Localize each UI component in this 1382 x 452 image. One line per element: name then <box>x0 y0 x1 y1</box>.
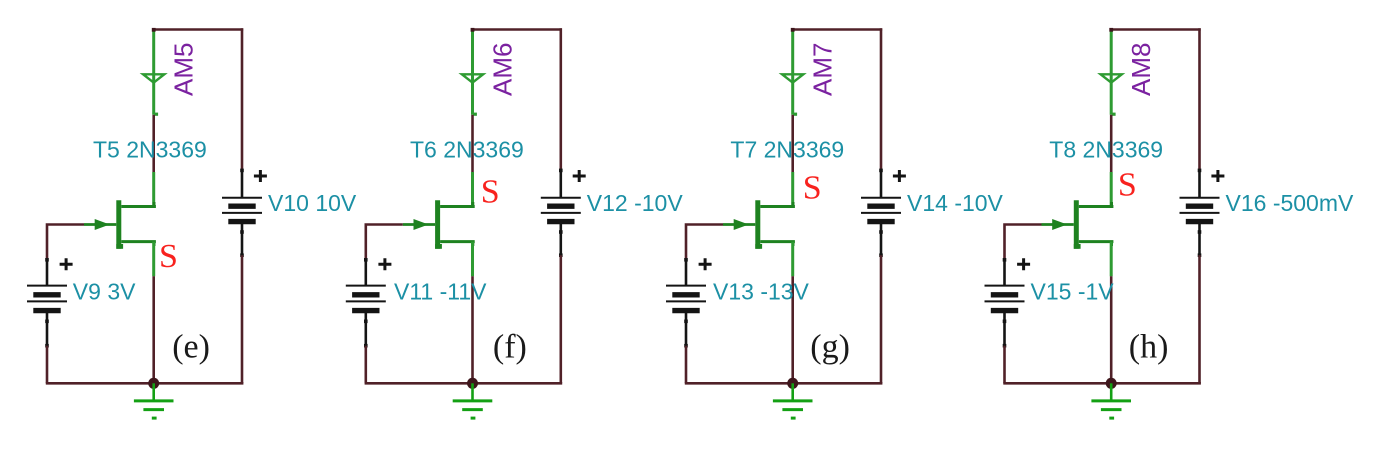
wire drain stub <box>152 172 155 207</box>
ammeter AM5 bottom pin tick <box>154 113 158 116</box>
svg-text:AM7: AM7 <box>808 43 838 96</box>
svg-text:V13 -13V: V13 -13V <box>713 279 810 305</box>
ammeter AM7 (arrow symbol) <box>782 74 803 82</box>
ground <box>1091 383 1131 418</box>
battery V15 <box>985 258 1031 348</box>
wire ammeter top lead <box>791 31 794 115</box>
wire source to bottom rail <box>471 276 474 383</box>
wire bottom rail (ground net) <box>46 382 244 385</box>
wire gate to left battery <box>47 225 84 260</box>
wire source lead down <box>152 242 155 277</box>
wire right rail upper <box>1198 28 1201 170</box>
wire ammeter top lead <box>471 31 474 115</box>
ammeter AM6 (arrow symbol) <box>462 74 483 82</box>
wire drain stub <box>1110 172 1113 207</box>
ground <box>453 383 493 418</box>
wire left battery to bottom rail <box>685 346 688 384</box>
battery V10 <box>222 169 267 257</box>
battery V16 <box>1180 169 1225 257</box>
wire bottom rail (ground net) <box>1003 382 1201 385</box>
wire source to bottom rail <box>791 276 794 383</box>
transistor T5 (JFET 2N3369) <box>84 200 156 249</box>
ammeter AM5 (arrow symbol) <box>143 74 164 82</box>
battery V12 <box>541 169 586 257</box>
wire top rail <box>153 28 244 31</box>
svg-text:S: S <box>1118 167 1137 204</box>
wire left battery to bottom rail <box>364 346 367 384</box>
wire bottom rail (ground net) <box>365 382 563 385</box>
node top-left corner <box>791 28 795 32</box>
wire source lead down <box>471 242 474 277</box>
svg-text:V11 -11V: V11 -11V <box>394 279 487 305</box>
ammeter AM7 bottom pin tick <box>793 113 797 116</box>
wire ammeter to drain <box>791 115 794 172</box>
wire ammeter to drain <box>152 115 155 172</box>
node ground junction <box>148 378 159 389</box>
svg-text:S: S <box>481 173 500 210</box>
svg-text:AM6: AM6 <box>487 43 517 96</box>
wire right rail lower <box>1198 255 1201 383</box>
ammeter AM6 bottom pin tick <box>473 113 477 116</box>
node ground junction <box>1106 378 1117 389</box>
svg-text:V15 -1V: V15 -1V <box>1031 279 1115 305</box>
ammeter AM8 bottom pin tick <box>1112 113 1116 116</box>
node ground junction <box>467 378 478 389</box>
wire gate to left battery <box>1005 225 1042 260</box>
svg-text:(e): (e) <box>172 329 210 366</box>
svg-text:AM8: AM8 <box>1126 43 1156 96</box>
wire source lead down <box>1110 242 1113 277</box>
wire ammeter to drain <box>471 115 474 172</box>
ground <box>134 383 174 418</box>
svg-text:T5 2N3369: T5 2N3369 <box>93 137 207 163</box>
wire right rail upper <box>880 28 883 170</box>
svg-text:T6 2N3369: T6 2N3369 <box>410 137 524 163</box>
wire drain stub <box>471 172 474 207</box>
wire gate to left battery <box>366 225 403 260</box>
wire ammeter to drain <box>1110 115 1113 172</box>
transistor T6 (JFET 2N3369) <box>403 200 475 249</box>
svg-text:T7 2N3369: T7 2N3369 <box>730 137 844 163</box>
wire top rail <box>471 28 562 31</box>
ground <box>773 383 813 418</box>
wire top rail <box>792 28 883 31</box>
transistor T8 (JFET 2N3369) <box>1042 200 1114 249</box>
svg-text:(f): (f) <box>493 329 527 366</box>
svg-text:V10 10V: V10 10V <box>268 190 357 216</box>
battery V14 <box>861 169 906 257</box>
ammeter AM8 (arrow symbol) <box>1101 74 1122 82</box>
svg-text:AM5: AM5 <box>169 43 199 96</box>
svg-text:S: S <box>159 238 178 275</box>
svg-text:V12 -10V: V12 -10V <box>587 190 684 216</box>
svg-text:T8 2N3369: T8 2N3369 <box>1049 137 1163 163</box>
battery V9 <box>27 258 73 348</box>
wire source to bottom rail <box>1110 276 1113 383</box>
node ground junction <box>787 378 798 389</box>
wire bottom rail (ground net) <box>685 382 883 385</box>
wire source lead down <box>791 242 794 277</box>
wire source to bottom rail <box>152 276 155 383</box>
svg-text:V14 -10V: V14 -10V <box>907 190 1004 216</box>
node top-left corner <box>152 28 156 32</box>
wire right rail lower <box>559 255 562 383</box>
wire gate to left battery <box>686 225 723 260</box>
svg-text:(h): (h) <box>1129 329 1169 366</box>
battery V11 <box>346 258 392 348</box>
wire ammeter top lead <box>1110 31 1113 115</box>
node top-left corner <box>471 28 475 32</box>
wire left battery to bottom rail <box>1003 346 1006 384</box>
wire right rail upper <box>241 28 244 170</box>
wire drain stub <box>791 172 794 207</box>
transistor T7 (JFET 2N3369) <box>723 200 795 249</box>
svg-text:S: S <box>803 170 822 207</box>
wire right rail lower <box>241 255 244 383</box>
node top-left corner <box>1109 28 1113 32</box>
wire right rail upper <box>559 28 562 170</box>
svg-text:(g): (g) <box>810 329 850 366</box>
wire right rail lower <box>880 255 883 383</box>
svg-text:V16 -500mV: V16 -500mV <box>1226 190 1355 216</box>
wire left battery to bottom rail <box>46 346 49 384</box>
wire top rail <box>1110 28 1201 31</box>
battery V13 <box>666 258 712 348</box>
wire ammeter top lead <box>152 31 155 115</box>
svg-text:V9 3V: V9 3V <box>73 279 136 305</box>
